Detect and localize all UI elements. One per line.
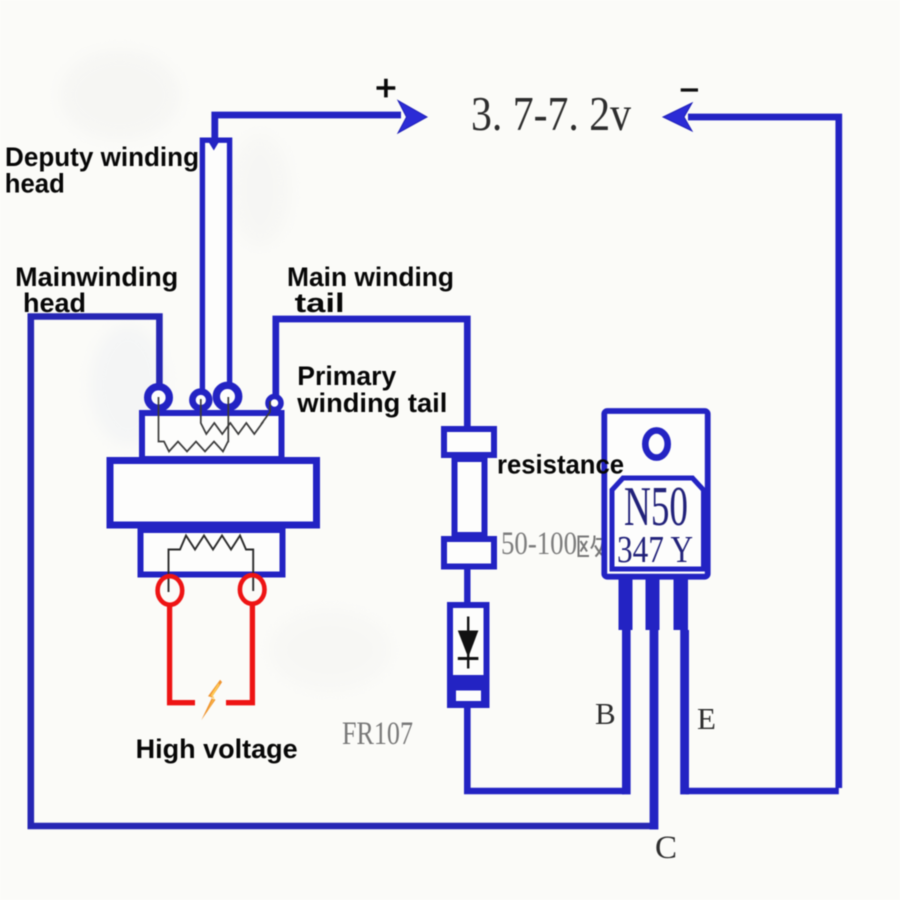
svg-text:head: head	[5, 169, 65, 199]
winding wire loop2 to hook	[201, 399, 270, 434]
terminal loop 3 (deputy winding right lead)	[216, 385, 238, 407]
label 50-100 ohm	[501, 526, 603, 562]
transistor leg E narrow	[680, 630, 689, 794]
label Main winding tail	[287, 262, 454, 318]
label E	[697, 701, 716, 736]
label High voltage	[136, 734, 298, 764]
svg-text:3. 7-7. 2v: 3. 7-7. 2v	[471, 86, 631, 141]
wire emitter to right rail	[686, 788, 839, 795]
transistor leg C wide	[646, 577, 660, 630]
terminal loop 1 (mainwinding head)	[148, 387, 170, 409]
svg-text:50-100: 50-100	[501, 526, 577, 562]
resistor body	[455, 459, 485, 535]
transformer upper bobbin box	[142, 413, 282, 459]
marking 347 Y	[617, 529, 693, 571]
label Primary winding tail	[296, 361, 447, 418]
label B	[595, 696, 616, 731]
svg-text:High voltage: High voltage	[136, 734, 298, 764]
wire resistor to diode	[464, 566, 470, 606]
label 3.7-7.2v	[471, 86, 631, 141]
wire positive supply line	[215, 115, 401, 140]
svg-text:resistance: resistance	[497, 450, 624, 480]
label C	[655, 830, 677, 866]
svg-text:FR107: FR107	[342, 716, 413, 752]
wire main winding tail down to resistor	[276, 319, 468, 430]
red lead right	[226, 604, 252, 703]
svg-text:E: E	[697, 701, 716, 736]
svg-text:Deputy winding: Deputy winding	[5, 142, 199, 172]
transformer lower bobbin box	[141, 530, 283, 575]
terminal hook (primary winding tail)	[268, 397, 281, 410]
marking N50	[624, 476, 688, 538]
feed tap into deputy winding	[207, 139, 222, 151]
svg-text:C: C	[655, 830, 677, 866]
svg-text:Primary: Primary	[297, 361, 396, 391]
wire mainwinding head to transformer and left rail to collector line	[31, 317, 653, 827]
transistor leg B wide	[619, 577, 633, 630]
resistor top cap	[444, 429, 494, 455]
transistor label plate	[612, 478, 704, 569]
terminal loop 2 (deputy winding left lead)	[192, 392, 209, 409]
svg-text:347 Y: 347 Y	[617, 529, 693, 571]
arrowhead plus output	[398, 101, 427, 134]
label Mainwinding head	[15, 262, 178, 318]
svg-text:tail: tail	[295, 288, 345, 318]
diode symbol	[458, 617, 479, 669]
wire negative return from right rail	[688, 117, 839, 788]
arrowhead minus input	[663, 103, 692, 131]
wire diode to base	[467, 703, 624, 791]
plus sign	[377, 79, 396, 98]
deputy winding bobbin (tall thin loop)	[202, 140, 229, 389]
winding wire loop1 to loop3	[159, 397, 229, 452]
transistor leg C narrow	[650, 630, 659, 830]
spark lightning bolt	[201, 678, 222, 721]
high voltage terminal ring right	[240, 575, 265, 604]
svg-text:B: B	[595, 696, 616, 731]
label resistance	[497, 450, 624, 480]
transistor leg B narrow	[622, 630, 631, 794]
transistor mounting hole	[645, 430, 667, 457]
label Deputy winding head	[5, 142, 199, 199]
diode cathode band	[451, 675, 487, 703]
svg-text:winding tail: winding tail	[296, 388, 447, 418]
high voltage terminal ring left	[158, 576, 183, 605]
transistor package outline	[604, 411, 707, 577]
transistor leg E wide	[674, 577, 689, 630]
red lead left	[170, 605, 195, 703]
secondary winding wire in lower bobbin	[169, 536, 254, 593]
label FR107	[342, 716, 413, 752]
transformer core (wide box)	[110, 461, 317, 526]
resistor bottom cap	[444, 539, 494, 567]
diode FR107 body	[450, 605, 487, 705]
minus sign	[681, 88, 698, 91]
